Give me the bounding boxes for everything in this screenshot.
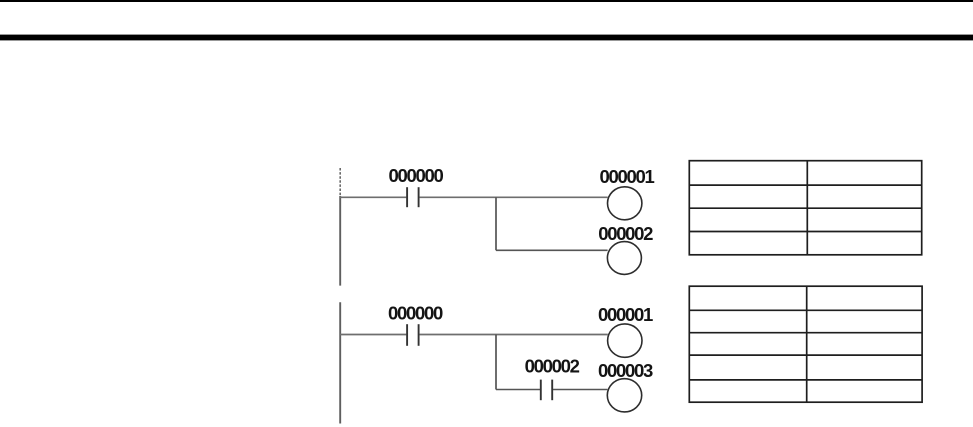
coil 000002 rung1	[607, 242, 641, 275]
svg-text:000002: 000002	[598, 223, 653, 244]
left power rail rung 2	[339, 302, 341, 423]
contact 000000 rung1	[407, 187, 419, 207]
wire rung2 rail to contact 000000	[340, 334, 406, 336]
svg-text:000000: 000000	[389, 165, 444, 186]
left power rail rung 1	[339, 168, 341, 196]
wire rung2 contact to coil 000001	[419, 334, 607, 336]
contact 000002 rung2	[541, 380, 552, 401]
branch wire down rung1	[495, 197, 497, 250]
wire rung1 contact to coil 000001	[419, 196, 607, 198]
branch wire to coil 000002	[496, 249, 608, 251]
contact 000000 rung2	[407, 324, 419, 346]
svg-text:000000: 000000	[388, 302, 443, 323]
svg-text:000003: 000003	[598, 360, 653, 381]
svg-text:000001: 000001	[598, 304, 653, 325]
coil 000001 rung1	[608, 187, 642, 220]
wire rung1 rail to contact 000000	[340, 196, 406, 198]
wire contact 000002 to coil 000003	[553, 389, 607, 391]
svg-text:000001: 000001	[600, 166, 655, 187]
header thin rule	[0, 0, 973, 2]
coil 000003 rung2	[607, 379, 641, 412]
table 1 (4 rows x 2 cols, empty)	[689, 161, 921, 255]
svg-text:000002: 000002	[525, 356, 580, 377]
branch wire down rung2	[495, 335, 497, 390]
header thick rule	[0, 35, 973, 41]
coil 000001 rung2	[608, 324, 642, 357]
branch wire to contact 000002	[496, 389, 540, 391]
table 2 (5 rows x 2 cols, empty)	[689, 286, 922, 402]
